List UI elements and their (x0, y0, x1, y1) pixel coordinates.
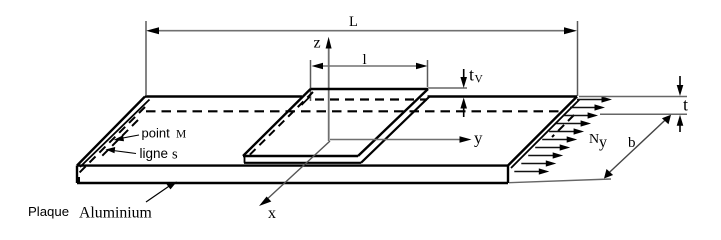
svg-text:Plaque: Plaque (28, 204, 69, 219)
plate hidden bottom back edge (long dashed line) (146, 110, 564, 112)
svg-text:y: y (474, 129, 483, 148)
label Ny (589, 132, 607, 151)
patch hidden base-left edge (dashed diagonal) (247, 92, 313, 158)
label tv (469, 65, 484, 86)
plate bottom front edge (77, 182, 508, 184)
dimension t bottom extension line (600, 113, 687, 115)
dimension l right extension line (427, 60, 429, 87)
plate front top edge (77, 164, 508, 166)
axis z (326, 37, 332, 141)
dimension L right extension line (577, 21, 579, 96)
patch front bottom edge (244, 162, 361, 164)
dimension t top extension line (579, 96, 687, 98)
plate back edge right of patch (428, 95, 578, 97)
plate hidden bottom-left edge lower tick (78, 177, 80, 183)
svg-text:L: L (349, 14, 358, 30)
dimension b bottom extension line (509, 179, 611, 183)
load arrows Ny (514, 96, 612, 174)
dimension tv extension thin line (428, 87, 467, 89)
dimension tv upper arrow (460, 69, 467, 88)
svg-text:z: z (314, 35, 321, 52)
patch front top edge (243, 155, 358, 157)
plate hidden bottom-left edge (dashed diagonal) (78, 107, 145, 174)
axis x (259, 141, 330, 206)
label point M with leader arrow (114, 126, 187, 142)
svg-text:l: l (363, 52, 367, 68)
svg-text:x: x (268, 205, 276, 222)
label ligne s with leader arrow (106, 146, 179, 163)
dimension l line (312, 63, 428, 69)
patch right edge double line (358, 89, 430, 163)
plate left vertical edge (76, 166, 78, 184)
plate left edge double line (77, 97, 150, 168)
plate back edge (145, 95, 302, 97)
dimension t upper arrow (677, 76, 684, 96)
svg-text:M: M (176, 129, 186, 141)
plate right edge double line (508, 97, 580, 169)
svg-text:s: s (172, 147, 178, 163)
dimension t lower arrow (677, 115, 684, 132)
dimension L line (146, 27, 577, 34)
patch left edge (243, 89, 311, 156)
svg-text:N: N (589, 132, 599, 147)
dimension b line with arrowheads (604, 115, 671, 179)
svg-text:t: t (683, 95, 688, 115)
svg-text:y: y (599, 134, 607, 151)
dimension l left extension line (310, 60, 312, 101)
dimension tv lower arrow (460, 98, 467, 118)
plate hidden back edge behind patch (dashed) (315, 98, 427, 100)
svg-text:point: point (142, 126, 171, 141)
label Plaque Aluminium with leader arrow (28, 182, 177, 222)
svg-text:Aluminium: Aluminium (79, 205, 153, 222)
ligne s dashed segment (102, 120, 138, 156)
plate hidden bottom-right edge (dashed diagonal) (552, 115, 574, 137)
patch front-left corner tick (244, 156, 246, 163)
plate right vertical edge (507, 166, 509, 184)
axis y (330, 136, 472, 143)
svg-text:V: V (475, 74, 484, 86)
dimension L left extension line (145, 21, 147, 95)
patch back edge (311, 88, 429, 90)
svg-text:b: b (628, 135, 636, 151)
svg-text:ligne: ligne (140, 146, 169, 161)
svg-text:t: t (469, 65, 474, 85)
